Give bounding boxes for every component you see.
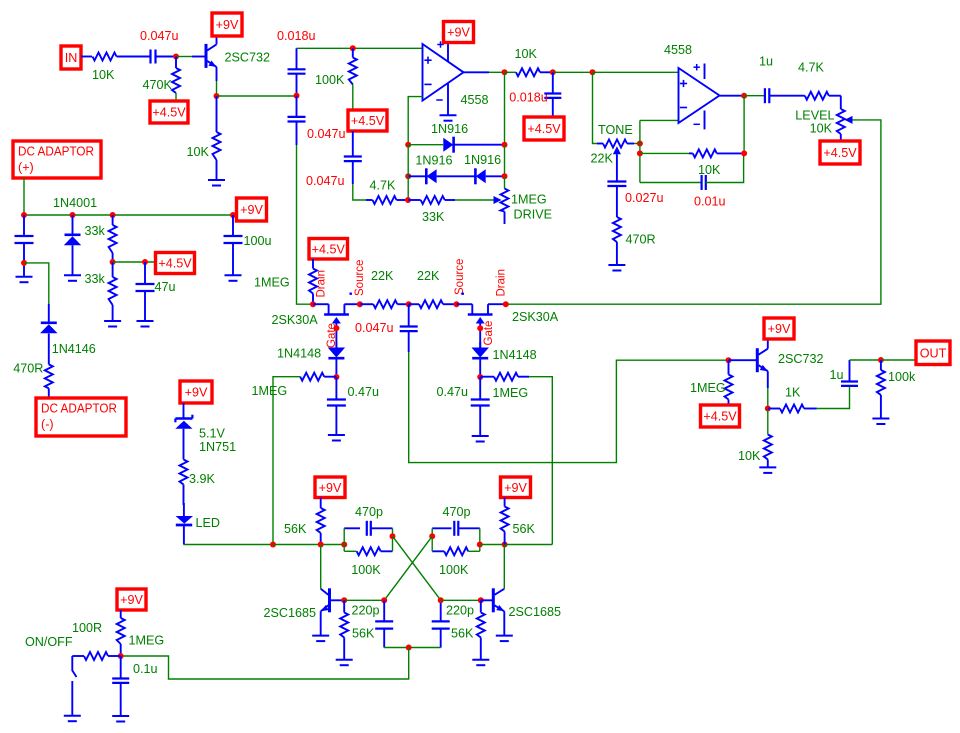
power pin U2 + <box>694 64 705 80</box>
svg-text:100R: 100R <box>72 621 102 635</box>
wire LEVEL wiper to drain row <box>506 120 881 304</box>
base lead Q6 <box>481 599 494 601</box>
svg-text:47u: 47u <box>155 280 176 294</box>
capacitor 0.01u C12 <box>694 175 726 209</box>
power +4.5V (R14) <box>309 239 348 260</box>
junction node F <box>502 69 508 75</box>
svg-text:470p: 470p <box>355 505 383 519</box>
base lead Q1 <box>192 56 205 58</box>
ground (R5) <box>104 321 121 327</box>
LED D9 <box>176 503 220 545</box>
wire fb column <box>639 120 641 182</box>
svg-text:1MEG: 1MEG <box>511 193 547 207</box>
power +9V (LED chain) <box>180 381 212 403</box>
wire node H to node I <box>553 71 593 73</box>
svg-text:+4.5V: +4.5V <box>312 242 346 256</box>
junction diode row1 left <box>405 142 411 148</box>
svg-text:0.027u: 0.027u <box>625 191 664 205</box>
wire node F down <box>504 72 506 144</box>
svg-text:Source: Source <box>354 260 366 296</box>
power +4.5V (LEVEL) <box>820 141 860 164</box>
diode 1N4148 D7 <box>472 342 537 377</box>
svg-text:2SC732: 2SC732 <box>225 51 271 65</box>
wire FF collector row left <box>273 544 344 546</box>
transistor Q6 2SC1685 <box>493 588 561 619</box>
wire emitter to node B <box>216 81 218 96</box>
junction loop2 cross <box>429 533 435 539</box>
capacitor 0.47u C14 <box>327 377 379 435</box>
svg-text:2SC1685: 2SC1685 <box>264 606 317 620</box>
cross wire loop2-baseL <box>384 536 432 600</box>
wire U1 inv input <box>408 97 422 145</box>
svg-text:220p: 220p <box>352 604 380 618</box>
svg-text:TONE: TONE <box>598 123 633 137</box>
jfet Q3 2SK30A <box>457 304 559 347</box>
svg-text:56K: 56K <box>513 522 536 536</box>
ground (R20) <box>759 467 776 473</box>
capacitor 0.047u C9 <box>306 131 362 188</box>
resistor 33k R5 <box>85 262 117 321</box>
junction loop1 cross <box>390 533 396 539</box>
svg-text:+9V: +9V <box>319 481 342 495</box>
label Source Q2 <box>354 260 366 296</box>
svg-text:470K: 470K <box>143 78 173 92</box>
svg-text:Gate: Gate <box>483 321 495 346</box>
svg-text:+4.5V: +4.5V <box>703 410 737 424</box>
svg-text:+9V: +9V <box>447 26 470 40</box>
svg-text:0.047u: 0.047u <box>355 321 394 335</box>
loop1 right edge <box>392 528 394 551</box>
junction FF right collector <box>502 542 508 548</box>
svg-text:OUT: OUT <box>920 346 947 360</box>
wire to OUT box <box>881 359 916 361</box>
capacitor 0.1u C22 <box>112 656 157 716</box>
svg-text:10K: 10K <box>187 145 210 159</box>
wire row2 left lead <box>408 175 426 177</box>
svg-text:220p: 220p <box>446 604 474 618</box>
wire node K to C13 <box>744 95 765 97</box>
svg-text:100k: 100k <box>888 370 916 384</box>
svg-text:1MEG: 1MEG <box>254 276 290 290</box>
junction at 100K top <box>350 45 356 51</box>
junction base node Q4 <box>726 357 732 363</box>
emitter wire Q4 <box>767 371 769 388</box>
wire node I to U2 +in <box>593 71 679 73</box>
ground (R22) <box>872 419 889 425</box>
junction gate net L <box>333 374 339 380</box>
op-amp U2 4558 <box>679 68 720 123</box>
svg-text:10K: 10K <box>738 449 761 463</box>
svg-text:+9V: +9V <box>768 322 791 336</box>
ground (C16) <box>472 436 489 442</box>
svg-text:+4.5V: +4.5V <box>158 257 192 271</box>
wire C9 to R8 <box>353 184 366 200</box>
wire loop2 to right collector <box>480 544 505 546</box>
power +4.5V (C10) <box>524 117 564 140</box>
marker dot Q3 source <box>462 293 464 295</box>
svg-text:22K: 22K <box>417 269 440 283</box>
junction gate Q2 <box>333 325 339 331</box>
power +9V (U1) <box>444 22 474 43</box>
svg-text:LEVEL: LEVEL <box>795 108 834 122</box>
svg-text:ON/OFF: ON/OFF <box>25 635 73 649</box>
capacitor 0.47u C16 <box>437 377 490 436</box>
wire R21 to C17 <box>817 386 850 409</box>
wire node B to C2 chain <box>217 95 297 97</box>
wire R9 to DRIVE wiper <box>455 199 493 201</box>
marker U1 minus input <box>424 83 431 85</box>
capacitor 0.047u C15 <box>355 304 418 352</box>
svg-text:4558: 4558 <box>461 93 489 107</box>
wire R18 to FF right node <box>529 377 552 545</box>
resistor 3.9K R23 <box>180 460 216 506</box>
svg-text:56K: 56K <box>451 627 474 641</box>
resistor 1MEG R14 <box>254 259 317 304</box>
resistor 470R R6 <box>13 362 53 398</box>
svg-text:1K: 1K <box>785 386 801 400</box>
resistor 1MEG R30 <box>117 610 165 656</box>
marker U2 plus input <box>680 80 687 87</box>
node OUT <box>916 341 950 365</box>
ground (R29) <box>472 660 489 666</box>
label Gate Q2 <box>326 323 338 348</box>
collector wire Q1 <box>216 37 218 45</box>
junction rail at D1 <box>70 212 76 218</box>
capacitor 470p C19 <box>432 505 480 536</box>
potentiometer 22K TONE <box>591 123 635 166</box>
resistor 100K R26 <box>432 547 480 577</box>
svg-text:DC ADAPTOR: DC ADAPTOR <box>41 402 117 416</box>
node IN <box>61 46 81 69</box>
svg-text:0.01u: 0.01u <box>694 195 726 209</box>
svg-text:0.018u: 0.018u <box>277 29 316 43</box>
base lead Q5 <box>330 599 345 601</box>
junction node G (33K row) <box>405 197 411 203</box>
svg-text:1MEG: 1MEG <box>690 381 726 395</box>
zener 1N751 D8 <box>175 403 236 460</box>
resistor 56K R29 <box>451 600 485 659</box>
svg-text:1MEG: 1MEG <box>252 384 288 398</box>
wire node K down to fb <box>743 96 745 154</box>
potentiometer 1MEG DRIVE <box>501 176 553 224</box>
wire node A to Q1 base <box>176 56 192 58</box>
junction node OUT <box>878 357 884 363</box>
wire emitter to node S <box>767 388 769 409</box>
wire U1 output <box>464 71 490 73</box>
capacitor 220p C20 <box>352 600 394 647</box>
wire C1 to node A <box>156 56 177 58</box>
wire row2 right lead <box>486 175 505 177</box>
diode 1N916 D5 <box>464 153 501 184</box>
junction rail at C6 <box>230 212 236 218</box>
capacitor 0.018u C7 <box>277 29 316 96</box>
ground (C22) <box>112 716 129 722</box>
terminal DC ADAPTOR (-) <box>36 398 126 436</box>
resistor 100R R31 <box>25 621 121 660</box>
capacitor 1u C17 <box>830 360 859 386</box>
power +9V (switch) <box>117 589 146 610</box>
resistor 33k R4 <box>85 215 117 262</box>
svg-text:33k: 33k <box>85 272 106 286</box>
wiper arrow TONE <box>613 146 621 154</box>
wire top row to opamp U1 <box>297 47 423 49</box>
junction at C4 <box>142 259 148 265</box>
junction bottom rail <box>406 645 412 651</box>
svg-text:1MEG: 1MEG <box>129 634 165 648</box>
wire U2 inv input <box>640 119 679 121</box>
ground (C14) <box>328 435 345 441</box>
svg-text:100u: 100u <box>244 234 272 248</box>
svg-text:56K: 56K <box>352 627 375 641</box>
svg-text:1N751: 1N751 <box>199 440 236 454</box>
wire 220p bottom rail <box>384 647 441 649</box>
svg-text:(-): (-) <box>41 418 54 432</box>
power pin U2 - <box>694 111 705 130</box>
svg-text:1N4148: 1N4148 <box>493 348 537 362</box>
svg-text:(+): (+) <box>18 161 34 175</box>
svg-text:100K: 100K <box>439 563 469 577</box>
ground (D1) <box>64 275 81 281</box>
junction switch node <box>118 653 124 659</box>
junction base Q5 R28 <box>341 597 347 603</box>
collector wire Q6 <box>503 545 505 589</box>
wire right collector to R18 net <box>505 544 553 546</box>
svg-text:33k: 33k <box>85 224 106 238</box>
svg-text:2SC1685: 2SC1685 <box>509 605 562 619</box>
label U2 4558 <box>664 43 692 57</box>
svg-text:0.018u: 0.018u <box>509 91 548 105</box>
power +4.5V (R19) <box>701 405 740 427</box>
capacitor 100u C6 <box>224 215 272 275</box>
resistor 4.7K R8 <box>366 179 408 205</box>
svg-text:+9V: +9V <box>240 203 263 217</box>
wire FF bottom to switch node <box>121 648 409 680</box>
capacitor 470p C18 <box>344 505 392 536</box>
ground (R28) <box>336 660 353 666</box>
junction node H <box>550 69 556 75</box>
svg-text:1N916: 1N916 <box>464 153 501 167</box>
junction rail at R4 <box>110 212 116 218</box>
junction diode row2 left <box>405 173 411 179</box>
svg-text:0.047u: 0.047u <box>307 127 346 141</box>
junction node K fb <box>741 150 747 156</box>
svg-text:3.9K: 3.9K <box>189 472 216 486</box>
ground (R11) <box>608 265 625 271</box>
resistor 1MEG R18 <box>480 373 529 400</box>
resistor 22K R16 <box>360 269 409 308</box>
svg-text:+4.5V: +4.5V <box>823 146 857 160</box>
svg-text:5.1V: 5.1V <box>199 427 226 441</box>
junction diode row1 right <box>502 142 508 148</box>
svg-text:+9V: +9V <box>216 18 239 32</box>
resistor 10K R12 <box>689 149 744 177</box>
svg-text:0.047u: 0.047u <box>140 29 179 43</box>
junction node C (DC- branch) <box>21 260 27 266</box>
junction source node M <box>357 301 363 307</box>
ground (C6) <box>225 275 242 281</box>
wire R15 to LED row <box>273 377 295 545</box>
resistor 10K R1 <box>92 53 117 83</box>
ground (switch) <box>64 716 81 722</box>
loop1 left edge <box>343 528 345 551</box>
power +9V (FF left) <box>315 477 345 498</box>
junction base Q5 C20 <box>381 597 387 603</box>
switch ON/OFF <box>72 656 76 716</box>
svg-text:10K: 10K <box>92 68 115 82</box>
wire IN to R1 <box>81 56 92 58</box>
power +4.5V (R7) <box>348 110 387 131</box>
marker dot Q2 source <box>350 293 352 295</box>
junction source node O <box>454 301 460 307</box>
svg-text:1u: 1u <box>759 55 773 69</box>
resistor 56K R27 <box>501 498 536 545</box>
junction loop1 left <box>341 542 347 548</box>
svg-text:0.47u: 0.47u <box>348 385 380 399</box>
capacitor 1u C13 <box>759 55 773 104</box>
junction node S <box>765 406 771 412</box>
ground (C4) <box>137 321 154 327</box>
junction gate Q3 <box>477 325 483 331</box>
junction FF left collector <box>318 542 324 548</box>
capacitor 0.047u C1 <box>140 29 179 64</box>
resistor 10K R3 <box>187 96 221 180</box>
wiper arrow LEVEL <box>845 116 853 124</box>
terminal DC ADAPTOR (+) <box>13 141 101 178</box>
ground (Q5) <box>312 636 329 642</box>
wire base row right <box>441 599 481 601</box>
junction node A <box>173 54 179 60</box>
junction drain node P <box>503 301 509 307</box>
wire C15 to base feed <box>409 352 729 463</box>
svg-text:100K: 100K <box>315 73 345 87</box>
svg-text:1N916: 1N916 <box>415 154 452 168</box>
resistor 470R R11 <box>613 217 656 265</box>
resistor 1MEG R19 <box>690 360 733 405</box>
svg-text:LED: LED <box>196 516 221 530</box>
potentiometer 10K LEVEL <box>795 96 845 141</box>
emitter wire Q5 <box>320 611 322 635</box>
transistor Q1 2SC732 <box>206 44 270 68</box>
svg-text:470p: 470p <box>443 505 471 519</box>
resistor 100k R22 <box>877 360 916 418</box>
junction LED row / gate net <box>270 542 276 548</box>
wire R1 to C1 <box>117 56 151 58</box>
resistor 10K R20 <box>738 409 772 468</box>
junction gate net R <box>477 374 483 380</box>
junction node D (+4.5V rail) <box>110 259 116 265</box>
svg-text:1u: 1u <box>830 368 844 382</box>
resistor 10K R10 <box>505 47 553 76</box>
power +4.5V (R2) <box>150 101 188 123</box>
junction TONE right <box>637 141 643 147</box>
svg-text:1N4148: 1N4148 <box>277 347 321 361</box>
diode 1N4146 D2 <box>40 304 96 365</box>
wire U2 output <box>720 95 745 97</box>
loop2 left edge <box>431 528 433 551</box>
cross wire loop1-baseR <box>393 536 441 600</box>
diode 1N4001 D1 <box>53 196 97 275</box>
wire col inv row2-row3 <box>407 176 409 200</box>
svg-text:4.7K: 4.7K <box>370 179 397 193</box>
diode 1N916 D4 <box>415 154 452 185</box>
label U1 4558 <box>461 93 489 107</box>
transistor Q4 2SC732 <box>757 348 823 372</box>
resistor 56K R24 <box>284 498 325 545</box>
resistor 33K R9 <box>408 196 455 224</box>
marker U2 minus input <box>680 107 687 109</box>
junction node N <box>406 301 412 307</box>
base lead Q4 <box>729 359 757 361</box>
resistor 470K R2 <box>143 57 181 102</box>
svg-text:0.047u: 0.047u <box>306 174 345 188</box>
power +9V (Q1) <box>212 13 242 36</box>
power pin U1 - <box>436 84 448 115</box>
collector wire Q4 <box>767 340 769 349</box>
svg-text:1MEG: 1MEG <box>493 386 529 400</box>
svg-text:4.7K: 4.7K <box>798 61 825 75</box>
wire LED to FF row <box>184 544 274 546</box>
junction node E <box>294 93 300 99</box>
resistor 22K R17 <box>409 269 457 308</box>
svg-text:1N916: 1N916 <box>431 122 468 136</box>
svg-text:470R: 470R <box>626 233 656 247</box>
svg-text:22K: 22K <box>591 152 614 166</box>
junction base Q6 C21 <box>438 597 444 603</box>
power +4.5V (rail) <box>156 253 195 274</box>
wire C8 down to drain node <box>297 145 314 304</box>
ground (C3) <box>16 277 33 283</box>
svg-text:4558: 4558 <box>664 43 692 57</box>
svg-text:0.47u: 0.47u <box>437 385 469 399</box>
svg-text:DC ADAPTOR: DC ADAPTOR <box>18 145 94 159</box>
wire col inv row1-row2 <box>407 145 409 177</box>
capacitor 220p C21 <box>432 600 474 647</box>
marker U1 plus input <box>424 57 431 64</box>
wire row1 left <box>408 144 443 146</box>
emitter wire Q6 <box>503 611 505 635</box>
svg-text:1N4001: 1N4001 <box>53 196 97 210</box>
resistor 4.7K R13 <box>769 61 841 100</box>
jfet Q2 2SK30A <box>272 304 360 347</box>
wire 0.01u row <box>640 182 702 184</box>
power pin U1 + <box>437 41 448 61</box>
label Gate Q3 <box>483 321 495 346</box>
collector wire Q5 <box>320 545 322 589</box>
svg-text:33K: 33K <box>422 210 445 224</box>
svg-text:1N4146: 1N4146 <box>52 342 96 356</box>
resistor 1MEG R15 <box>252 373 337 398</box>
junction node B <box>214 93 220 99</box>
junction base Q6 R29 <box>478 597 484 603</box>
svg-text:+9V: +9V <box>120 593 143 607</box>
wire C17 to OUT <box>850 359 881 361</box>
svg-text:Drain: Drain <box>495 269 507 296</box>
svg-text:DRIVE: DRIVE <box>514 208 553 222</box>
transistor Q5 2SC1685 <box>264 588 330 620</box>
svg-text:2SK30A: 2SK30A <box>512 310 559 324</box>
power +9V (FF right) <box>501 477 531 498</box>
diode 1N4148 D6 <box>277 342 345 377</box>
wire +9V rail <box>24 214 237 216</box>
svg-text:+9V: +9V <box>185 386 208 400</box>
junction loop2 right <box>477 542 483 548</box>
svg-text:10K: 10K <box>810 122 833 136</box>
resistor 56K R28 <box>340 600 375 659</box>
capacitor 0.027u C11 <box>607 154 663 217</box>
junction node K <box>741 93 747 99</box>
svg-text:+4.5V: +4.5V <box>351 114 385 128</box>
wire TONE right <box>634 143 640 145</box>
